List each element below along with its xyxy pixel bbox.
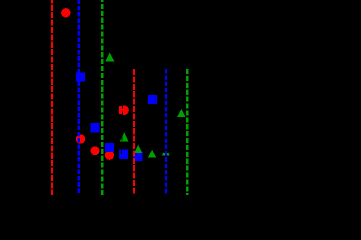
black occluder slit over M12 (121, 150, 122, 154)
black occluder slit over M5 (122, 105, 123, 109)
blue square M6 (90, 123, 99, 132)
green triangle M8 (with dark slit) (120, 132, 129, 141)
green dashed vline L3 (101, 0, 103, 195)
blue dashed vline L5 (165, 69, 167, 195)
green dashed vline L6 (186, 69, 188, 195)
red dashed vline L1 (51, 0, 53, 195)
red circle M7 (76, 134, 86, 144)
blue square M12 (with dark slit) (119, 150, 128, 159)
red circle M9 (91, 146, 100, 155)
green triangle M17 (blue line crosses on top) (162, 148, 170, 156)
blue dashed vline L2 (78, 0, 80, 195)
blue square M2 (76, 73, 85, 82)
red dashed vline L4 (133, 69, 135, 195)
blue square M4 (148, 95, 157, 104)
blue square M10 (105, 143, 114, 152)
red circle M5 (with dark slit) (119, 105, 129, 115)
green triangle M3 (105, 53, 114, 62)
green triangle M16 (148, 150, 156, 158)
green triangle M18 (177, 109, 186, 117)
red circle M1 (61, 8, 70, 17)
green triangle M13 (over square M14) (134, 145, 142, 154)
black occluder slit over M8 (122, 132, 123, 140)
blue square M14 (133, 151, 142, 160)
red circle M11 (under square M10) (105, 151, 114, 160)
